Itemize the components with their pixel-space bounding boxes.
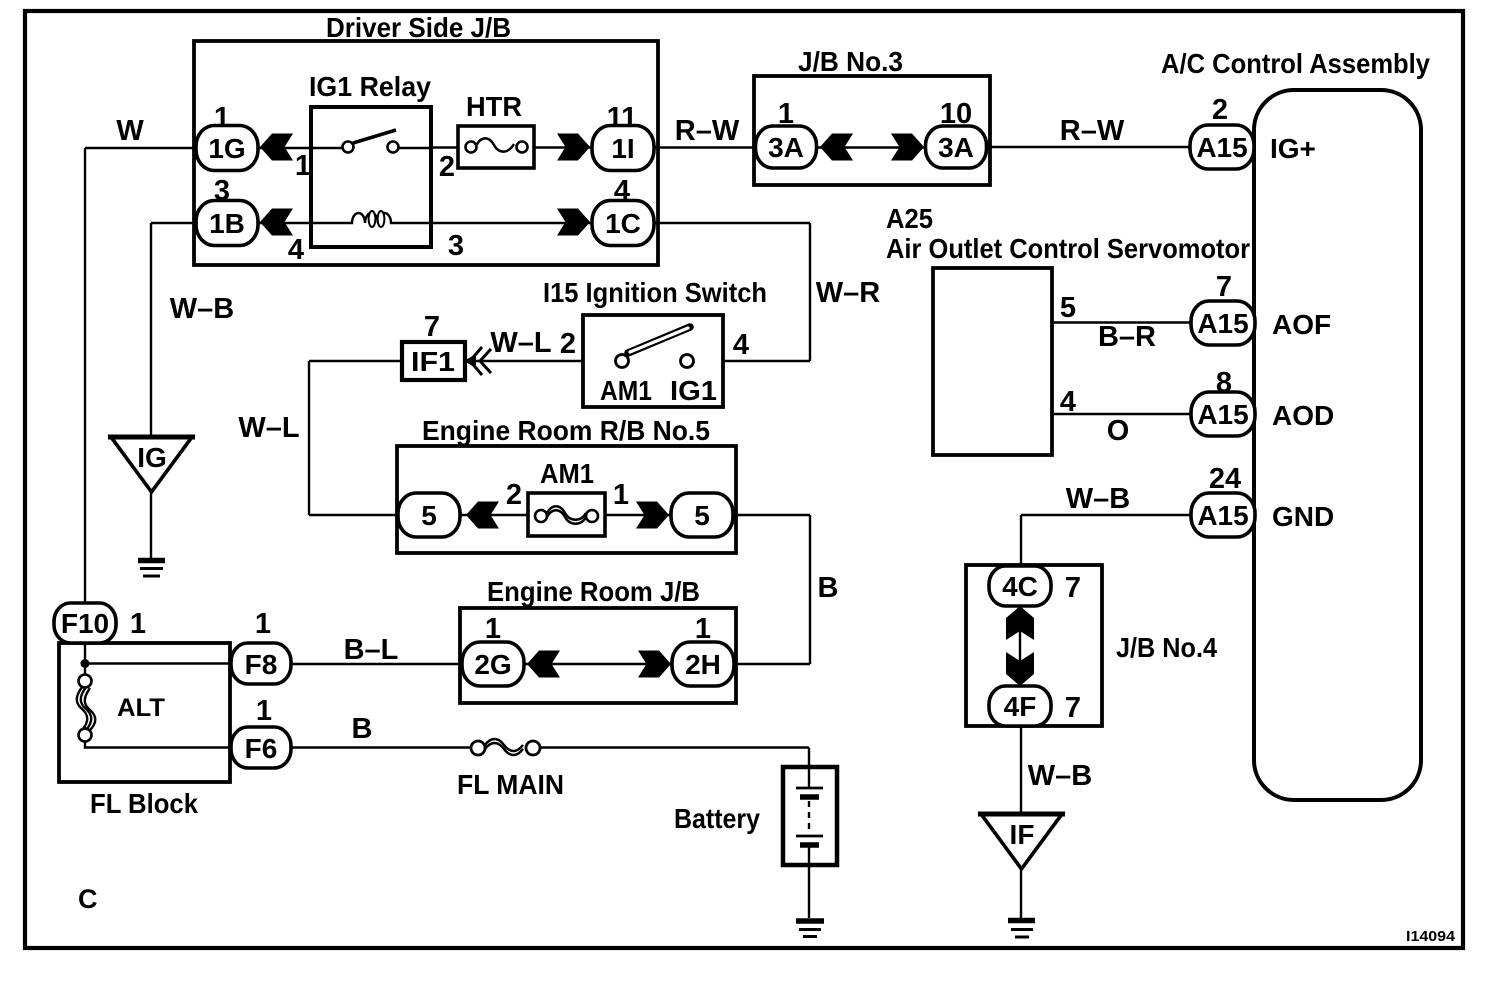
svg-text:3: 3 <box>214 175 230 207</box>
svg-text:2: 2 <box>439 151 455 183</box>
battery plate 1 long <box>796 787 823 790</box>
AM1 fuse element b <box>547 510 586 524</box>
connector 1C <box>592 201 654 246</box>
svg-text:A15: A15 <box>1197 308 1248 339</box>
svg-text:5: 5 <box>421 500 437 531</box>
svg-text:O: O <box>1107 415 1130 447</box>
svg-text:J/B No.3: J/B No.3 <box>798 46 903 77</box>
svg-text:2: 2 <box>1212 94 1228 126</box>
wire W horizontal to 1G <box>85 147 198 149</box>
svg-text:5: 5 <box>1060 292 1076 324</box>
wire W vertical to F10 <box>84 148 86 605</box>
relay coil loop b <box>378 211 385 227</box>
connector 4F <box>989 686 1051 726</box>
ignition switch contact AM1 <box>616 355 629 368</box>
svg-text:5: 5 <box>694 500 710 531</box>
svg-text:4: 4 <box>733 329 749 361</box>
connector F10 <box>54 603 116 643</box>
wire HTR to 1I <box>534 146 594 148</box>
connector 1I <box>592 126 654 171</box>
svg-text:2G: 2G <box>474 649 511 680</box>
svg-text:1: 1 <box>256 695 272 727</box>
connector 5 left <box>398 493 460 537</box>
svg-text:AOD: AOD <box>1272 400 1334 431</box>
svg-text:3A: 3A <box>938 132 974 163</box>
connector A15 AOD <box>1191 392 1255 436</box>
svg-text:HTR: HTR <box>466 91 522 122</box>
connector A15 GND <box>1191 493 1255 537</box>
svg-text:1C: 1C <box>605 208 641 239</box>
wire servo pin 5 to A15 AOF <box>1052 321 1193 323</box>
connector 5 right <box>671 493 733 537</box>
svg-text:3: 3 <box>448 230 464 262</box>
AM1 fuse element a <box>547 506 586 520</box>
svg-text:W: W <box>116 115 144 147</box>
svg-text:W–B: W–B <box>170 293 234 325</box>
battery bottom stem <box>808 847 810 918</box>
FL MAIN fusible element b <box>485 743 523 755</box>
fuse box AM1 <box>528 493 605 536</box>
svg-text:F6: F6 <box>245 733 278 764</box>
relay switch blade <box>353 130 396 143</box>
svg-text:2: 2 <box>506 479 522 511</box>
svg-text:AM1: AM1 <box>540 458 594 489</box>
svg-text:W–L: W–L <box>490 327 551 359</box>
svg-text:A15: A15 <box>1197 500 1248 531</box>
ignition switch contact IG1 <box>681 355 694 368</box>
ALT fusible link terminal top <box>79 675 92 688</box>
ground triangle IG <box>111 437 192 492</box>
svg-text:7: 7 <box>424 311 440 343</box>
wire W-R vertical <box>809 223 811 361</box>
battery ground bar 2 <box>799 928 821 931</box>
connector IF1 box <box>402 342 465 380</box>
svg-text:2H: 2H <box>685 649 721 680</box>
svg-text:1: 1 <box>130 608 146 640</box>
HTR fuse terminal left <box>466 142 477 153</box>
svg-text:4C: 4C <box>1002 571 1038 602</box>
svg-text:Air Outlet Control Servomotor: Air Outlet Control Servomotor <box>886 233 1250 264</box>
wire 1C to W-R corner <box>654 222 810 224</box>
relay switch contact left <box>343 142 354 153</box>
connector 1B <box>196 201 258 246</box>
svg-text:IF1: IF1 <box>411 346 455 377</box>
svg-text:IG+: IG+ <box>1270 133 1316 164</box>
svg-text:W–B: W–B <box>1028 760 1092 792</box>
svg-text:B: B <box>818 572 839 604</box>
battery dashed center <box>808 801 810 831</box>
svg-text:4: 4 <box>288 234 304 266</box>
svg-text:C: C <box>78 884 98 914</box>
wire servo pin 4 to A15 AOD <box>1052 413 1193 415</box>
IF ground bar 2 <box>1011 928 1033 931</box>
IG ground bar 2 <box>140 567 163 570</box>
wire between 4C and 4F <box>1019 606 1021 686</box>
arrow into right 5 <box>636 502 669 529</box>
arrow into 2G <box>527 651 560 678</box>
svg-text:FL Block: FL Block <box>90 788 198 819</box>
wire relay pin 2 to HTR <box>431 146 465 148</box>
svg-text:AM1: AM1 <box>600 375 652 406</box>
ALT fusible link element b <box>81 687 92 730</box>
ALT fusible link element c <box>85 688 96 730</box>
svg-text:B–L: B–L <box>344 634 399 666</box>
wire right 5 to B corner <box>733 514 810 516</box>
arrow into 1G <box>260 134 293 161</box>
relay box IG1 Relay <box>311 107 431 247</box>
svg-text:24: 24 <box>1209 463 1241 495</box>
wire W-B vertical to IG ground <box>150 223 152 437</box>
ALT fusible link terminal bottom <box>79 729 92 742</box>
IF ground bar 3 <box>1015 936 1029 939</box>
svg-text:W–B: W–B <box>1066 483 1130 515</box>
wire 1B to relay pin 4 <box>256 222 311 224</box>
connector 2G <box>462 642 524 686</box>
junction box Driver Side J/B <box>194 41 658 265</box>
arrow into 1I <box>557 134 590 161</box>
wire IF1 left <box>309 360 402 362</box>
svg-text:FL MAIN: FL MAIN <box>457 769 564 800</box>
connector A15 AOF <box>1191 301 1255 345</box>
svg-text:R–W: R–W <box>1060 115 1125 147</box>
svg-text:I15 Ignition Switch: I15 Ignition Switch <box>543 277 767 308</box>
svg-text:B: B <box>352 713 373 745</box>
svg-text:1: 1 <box>255 608 271 640</box>
HTR fuse terminal right <box>517 142 528 153</box>
wire 1G to relay pin 1 <box>256 147 311 149</box>
arrow into 2H <box>638 651 671 678</box>
svg-text:IG: IG <box>137 442 167 473</box>
FL MAIN terminal left <box>471 741 485 755</box>
svg-text:1B: 1B <box>209 208 245 239</box>
wire 3A to A15 IG+ <box>987 146 1193 148</box>
svg-text:1: 1 <box>778 98 794 130</box>
svg-text:1: 1 <box>295 150 311 182</box>
IF ground stem <box>1020 869 1022 918</box>
wire left 5 to AM1 fuse <box>458 514 530 516</box>
battery plate 4 thick <box>800 842 819 848</box>
ignition switch blade inner <box>630 328 688 352</box>
connector 2H <box>672 642 734 686</box>
svg-text:1: 1 <box>695 613 711 645</box>
battery ground bar 3 <box>803 935 817 938</box>
IG ground stem <box>150 492 152 558</box>
arrow into right 3A <box>891 134 924 161</box>
svg-text:R–W: R–W <box>675 115 740 147</box>
wire ALT to F6 <box>85 741 293 748</box>
svg-text:4: 4 <box>614 175 630 207</box>
wire 4F to IF ground <box>1020 726 1022 814</box>
wire battery top stem <box>808 748 810 789</box>
arrow into left 5 <box>466 502 499 529</box>
svg-text:Engine Room R/B No.5: Engine Room R/B No.5 <box>422 415 710 446</box>
svg-text:A15: A15 <box>1197 399 1248 430</box>
relay block box Engine Room R/B No.5 <box>397 446 736 553</box>
wire W-L vertical <box>308 361 310 515</box>
wire W-L to left 5 <box>309 514 400 516</box>
arrow up into 4C <box>1006 606 1034 640</box>
svg-text:1G: 1G <box>208 133 245 164</box>
svg-text:F8: F8 <box>245 649 278 680</box>
component box FL Block <box>59 643 230 782</box>
HTR fuse element <box>476 138 514 151</box>
wire B vertical <box>809 515 811 664</box>
FL MAIN terminal right <box>526 741 540 755</box>
connector F6 <box>231 727 291 768</box>
junction box J/B No.3 <box>754 76 990 185</box>
AM1 fuse terminal left <box>535 510 547 522</box>
arrow into 1B <box>260 209 293 236</box>
relay switch wire left <box>311 147 342 149</box>
connector 1G <box>196 126 258 171</box>
battery box <box>783 767 837 865</box>
wire A15 GND to J/B No.4 <box>1021 514 1193 516</box>
svg-text:Battery: Battery <box>674 803 760 834</box>
arrow down into 4F <box>1006 652 1034 686</box>
FL MAIN fusible element a <box>485 739 523 751</box>
wire F6 to FL MAIN <box>291 746 472 748</box>
svg-text:3A: 3A <box>768 132 804 163</box>
svg-text:2: 2 <box>560 328 576 360</box>
junction box Engine Room J/B <box>460 608 736 703</box>
svg-text:8: 8 <box>1216 367 1232 399</box>
component A/C Control Assembly <box>1254 90 1421 800</box>
svg-text:1: 1 <box>214 102 230 134</box>
svg-text:ALT: ALT <box>117 694 165 722</box>
wire switch pin 2 to IF1 <box>465 360 583 362</box>
IG ground bar 3 <box>143 575 160 578</box>
svg-text:4: 4 <box>1060 386 1076 418</box>
connector F8 <box>231 643 291 684</box>
wire 1B to left vertical <box>151 222 198 224</box>
svg-text:Engine Room J/B: Engine Room J/B <box>487 576 700 607</box>
arrow into left 3A <box>820 134 853 161</box>
IG ground bar 1 <box>138 558 165 564</box>
svg-text:7: 7 <box>1065 692 1081 724</box>
svg-text:1I: 1I <box>611 133 634 164</box>
fuse box HTR <box>458 126 534 168</box>
svg-text:7: 7 <box>1216 271 1232 303</box>
IF ground bar 1 <box>1008 918 1035 924</box>
ground triangle IF <box>981 814 1062 869</box>
svg-text:W–R: W–R <box>816 277 881 309</box>
wire F10 through block <box>84 605 86 676</box>
svg-text:AOF: AOF <box>1272 309 1331 340</box>
connector 3A right <box>926 126 987 168</box>
relay coil <box>311 213 431 223</box>
wire F8 to 2G <box>291 663 462 665</box>
svg-text:Driver Side J/B: Driver Side J/B <box>326 12 511 43</box>
AM1 fuse terminal right <box>586 510 598 522</box>
component box Air Outlet Control Servomotor <box>933 268 1052 455</box>
connector 3A left <box>756 126 817 168</box>
svg-text:7: 7 <box>1065 572 1081 604</box>
svg-text:J/B No.4: J/B No.4 <box>1116 632 1217 663</box>
wire between 3A connectors <box>815 146 927 148</box>
wire GND vertical to 4C <box>1020 515 1022 568</box>
wire ignition switch pin 4 <box>723 360 810 362</box>
svg-text:F10: F10 <box>61 608 109 639</box>
arrow into 1C <box>557 209 590 236</box>
connector A15 IG+ <box>1190 125 1254 169</box>
svg-text:10: 10 <box>940 98 972 130</box>
battery ground bar 1 <box>796 918 824 924</box>
switch box I15 Ignition Switch <box>583 315 723 407</box>
connector 4C <box>989 566 1051 606</box>
relay switch contact right <box>388 142 399 153</box>
wire junction to F8 <box>85 662 293 664</box>
svg-text:IG1 Relay: IG1 Relay <box>309 71 431 102</box>
svg-text:A/C Control Assembly: A/C Control Assembly <box>1161 48 1430 79</box>
svg-text:11: 11 <box>607 102 638 134</box>
junction node dot <box>81 659 90 668</box>
relay coil loop a <box>369 211 376 227</box>
svg-text:GND: GND <box>1272 501 1334 532</box>
chevron junction marks <box>464 354 476 368</box>
ALT fusible link element a <box>77 687 88 730</box>
wire 1I to J/B No.3 <box>654 146 756 148</box>
svg-text:1: 1 <box>485 613 501 645</box>
battery plate 2 thick <box>800 794 819 800</box>
wire B to 2H <box>734 663 810 665</box>
svg-text:A25: A25 <box>886 203 933 234</box>
ignition switch blade outer <box>628 327 690 353</box>
svg-text:I14094: I14094 <box>1406 929 1455 945</box>
wire FL MAIN to battery <box>540 746 809 748</box>
svg-text:B–R: B–R <box>1098 321 1156 353</box>
junction box J/B No.4 <box>966 565 1102 726</box>
svg-text:IG1: IG1 <box>670 375 717 406</box>
wire AM1 fuse to right 5 <box>603 514 673 516</box>
wire relay pin 3 to 1C <box>431 222 594 224</box>
svg-text:1: 1 <box>613 479 629 511</box>
svg-text:4F: 4F <box>1004 691 1037 722</box>
battery plate 3 long <box>796 835 823 838</box>
svg-text:A15: A15 <box>1196 132 1247 163</box>
relay switch wire right <box>399 147 431 149</box>
wire between 2G and 2H <box>522 663 674 665</box>
svg-text:IF: IF <box>1010 819 1035 850</box>
svg-text:W–L: W–L <box>238 412 299 444</box>
